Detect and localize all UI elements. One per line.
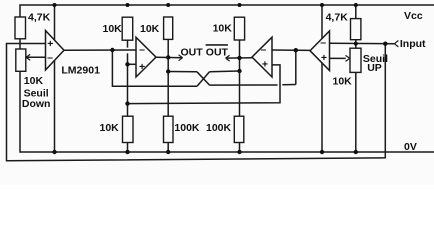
wire crossover X diagonals	[197, 72, 210, 86]
wire U1C inverting input to U1D output	[272, 49, 310, 51]
wire input loop (left riser, bottom run, right riser)	[7, 44, 386, 161]
op-amp U1C comparator	[252, 37, 272, 77]
wire swap bus upper left segment	[168, 71, 197, 73]
node 0V junction dots	[52, 150, 56, 154]
wire resistor R2 lead with hop gap	[127, 40, 129, 64]
wire x=127 down to bottom resistor R6	[127, 64, 129, 116]
svg-text:Input: Input	[400, 38, 426, 50]
op-amp U1B comparator	[136, 37, 156, 77]
svg-text:10K: 10K	[100, 122, 120, 134]
resistor R5 4,7K body	[351, 19, 361, 40]
svg-text:10K: 10K	[140, 23, 160, 35]
svg-text:LM2901: LM2901	[61, 65, 100, 77]
wire node A riser x=112 down to swap bus	[112, 50, 197, 86]
potentiometer P2 10K Seuil UP body	[350, 48, 361, 72]
wire swap bus lower right segment with hop gap	[210, 84, 296, 87]
wire swap bus upper right segment to node on R4 lead	[210, 70, 240, 73]
svg-text:Vcc: Vcc	[404, 10, 423, 22]
node U1B plus junction	[125, 62, 129, 66]
svg-text:Down: Down	[22, 98, 51, 110]
svg-text:10K: 10K	[103, 23, 123, 35]
svg-text:+: +	[139, 61, 145, 73]
ground stub U1A bottom to 0V	[54, 60, 56, 152]
ground stub U1D bottom to 0V	[321, 63, 323, 152]
wire pot P1 wiper to U1A inverting input	[26, 56, 46, 58]
arrow OUT-bar left-pointing head	[226, 55, 230, 61]
wire bottom reference bus from R6 node to U1C plus riser	[128, 65, 281, 104]
resistor R3 10K body	[164, 17, 173, 39]
wire 0V rail	[20, 72, 434, 153]
node Input junction	[383, 42, 387, 46]
svg-text:OUT: OUT	[181, 47, 204, 59]
svg-text:–: –	[47, 51, 53, 63]
resistor R7 100K body	[164, 116, 174, 142]
node threshold-up junction at R5	[354, 42, 358, 46]
resistor R5 4,7K leads	[355, 5, 357, 48]
wire OUT-bar overline	[206, 44, 228, 46]
resistor R1 4,7K body	[15, 17, 26, 39]
node OUT junction	[166, 55, 170, 59]
wire U1B output with OUT arrow	[156, 56, 182, 58]
arrow OUT right-pointing head	[179, 55, 183, 61]
svg-text:0V: 0V	[404, 141, 417, 153]
svg-text:4,7K: 4,7K	[28, 12, 51, 24]
wire bottom resistor leads to 0V rail	[128, 143, 240, 153]
node Vcc junction dots	[53, 3, 57, 7]
wire pot P2 bottom lead to 0V	[355, 72, 357, 152]
wire Vcc rail	[20, 5, 434, 17]
node OUT-bar junction	[237, 56, 241, 60]
wire U1D power stub top	[321, 5, 323, 39]
resistor R4 10K body	[234, 17, 244, 40]
node A U1A output junction	[110, 48, 114, 52]
wire U1D plus input to pot P2 wiper arrow	[330, 57, 346, 59]
resistor R1 4,7K leads	[19, 39, 21, 49]
node swap bus junction at R3 lead	[166, 69, 170, 73]
svg-text:10K: 10K	[213, 22, 233, 34]
op-amp U1A comparator	[46, 31, 65, 71]
svg-text:UP: UP	[367, 62, 382, 74]
resistor R8 100K body	[234, 116, 244, 142]
wire U1C output with OUT-bar arrow	[226, 57, 252, 59]
svg-text:10K: 10K	[24, 75, 44, 87]
node bottom bus junction at R6	[125, 101, 129, 105]
arrow P2 wiper right-pointing head	[346, 55, 350, 61]
svg-text:4,7K: 4,7K	[326, 12, 349, 24]
svg-text:+: +	[321, 52, 327, 64]
arrow P1 wiper left-pointing head	[26, 54, 30, 60]
svg-text:+: +	[47, 38, 53, 50]
svg-text:–: –	[139, 44, 145, 56]
wire riser x=296 from swap bus up to U1D output	[295, 50, 297, 84]
potentiometer P1 10K Seuil Down body	[16, 49, 26, 71]
svg-text:100K: 100K	[206, 122, 232, 134]
svg-text:OUT: OUT	[206, 47, 229, 59]
arrow Input left-pointing head	[394, 41, 398, 47]
resistor R6 10K bottom body	[123, 116, 134, 142]
wire R2 node to U1B plus input	[128, 63, 137, 65]
svg-text:–: –	[261, 44, 267, 56]
op-amp U1D comparator	[310, 31, 330, 71]
resistor R2 10K body	[122, 17, 133, 40]
node swap bus junction at R4 lead	[237, 69, 241, 73]
wire U1A power stub top	[54, 5, 56, 40]
svg-text:10K: 10K	[333, 75, 353, 87]
svg-text:+: +	[262, 58, 268, 70]
wire resistor R4 lead down through bus to R8	[239, 40, 241, 116]
svg-text:–: –	[320, 36, 326, 48]
wire U1A output to U1B inverting input	[64, 49, 136, 51]
node U1D output junction	[294, 48, 298, 52]
wire resistor R3 lead down through swap bus to R7	[167, 40, 169, 117]
svg-text:100K: 100K	[174, 122, 200, 134]
wire U1D inverting input / threshold node to Input arrow	[330, 42, 395, 45]
